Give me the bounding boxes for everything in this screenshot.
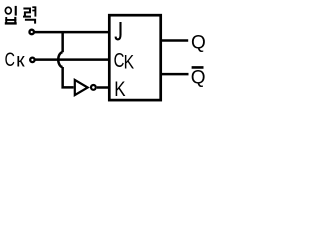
wire vertical down to inverter — [63, 67, 74, 87]
label 입력 (input) hand-drawn hangul syllable 력 — [23, 6, 35, 23]
inverter bubble — [91, 85, 96, 90]
pin label J (custom narrow J) — [116, 22, 121, 39]
svg-text:C: C — [5, 49, 15, 70]
terminal clock (open circle) — [30, 58, 35, 63]
wire J input horizontal — [35, 31, 111, 34]
svg-text:к: к — [16, 50, 25, 72]
svg-text:K: K — [124, 51, 135, 73]
wire CK horizontal — [35, 58, 110, 61]
wire Q-bar output stub — [161, 73, 189, 76]
wire inverter output to K input — [97, 86, 110, 89]
wire Q output stub — [161, 39, 188, 42]
svg-text:Q: Q — [191, 32, 206, 53]
svg-text:K: K — [114, 77, 125, 101]
svg-text:Q: Q — [191, 68, 206, 89]
flip-flop body U1 — [109, 15, 160, 100]
terminal input (open circle) — [29, 30, 34, 35]
label 입력 (input) hand-drawn hangul syllable 입 — [5, 6, 17, 24]
inverter NOT gate triangle — [75, 80, 88, 95]
wire hop over CK line — [58, 52, 62, 67]
overline of Q-bar — [192, 66, 204, 69]
wire branch down from J node — [61, 32, 64, 52]
